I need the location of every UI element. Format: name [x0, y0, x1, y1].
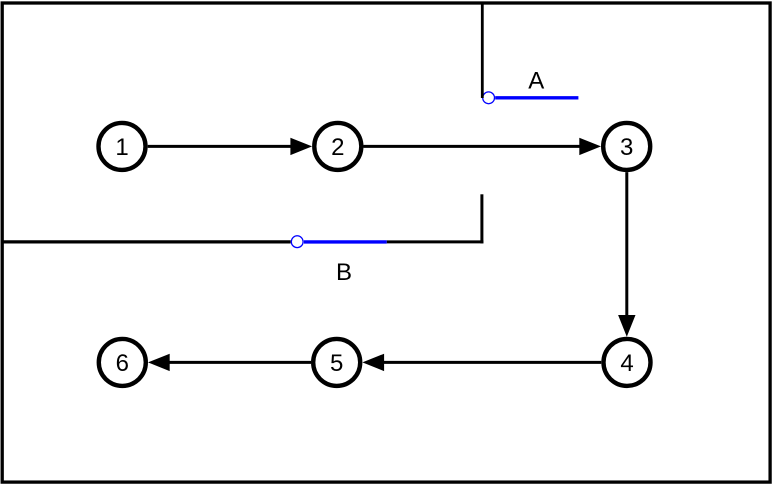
- svg-text:3: 3: [620, 134, 633, 161]
- arrow 5 to 6: [148, 354, 311, 371]
- node 6: [99, 339, 146, 386]
- arrow 1 to 2: [148, 138, 312, 155]
- svg-text:A: A: [528, 67, 544, 94]
- wire from top border to switch A: [481, 2, 484, 98]
- arrow 4 to 5: [362, 354, 601, 371]
- svg-text:B: B: [336, 259, 352, 286]
- node 2: [314, 123, 361, 170]
- wire from switch B blade to elbow: [387, 240, 484, 243]
- node 5: [313, 339, 360, 386]
- switch A blade (blue): [495, 96, 578, 99]
- svg-text:6: 6: [116, 350, 129, 377]
- svg-text:2: 2: [331, 134, 344, 161]
- svg-text:4: 4: [620, 350, 633, 377]
- switch A pivot contact: [483, 92, 495, 104]
- svg-text:5: 5: [330, 350, 343, 377]
- node 4: [604, 339, 651, 386]
- switch B pivot contact: [291, 236, 303, 248]
- svg-text:1: 1: [115, 134, 128, 161]
- switch B blade (blue): [304, 240, 387, 243]
- node 3: [603, 123, 650, 170]
- wire from left border to switch B: [2, 240, 291, 243]
- node 1: [99, 123, 146, 170]
- arrow 2 to 3: [364, 138, 602, 155]
- wire elbow riser: [480, 194, 483, 243]
- arrow 3 to 4: [618, 172, 635, 337]
